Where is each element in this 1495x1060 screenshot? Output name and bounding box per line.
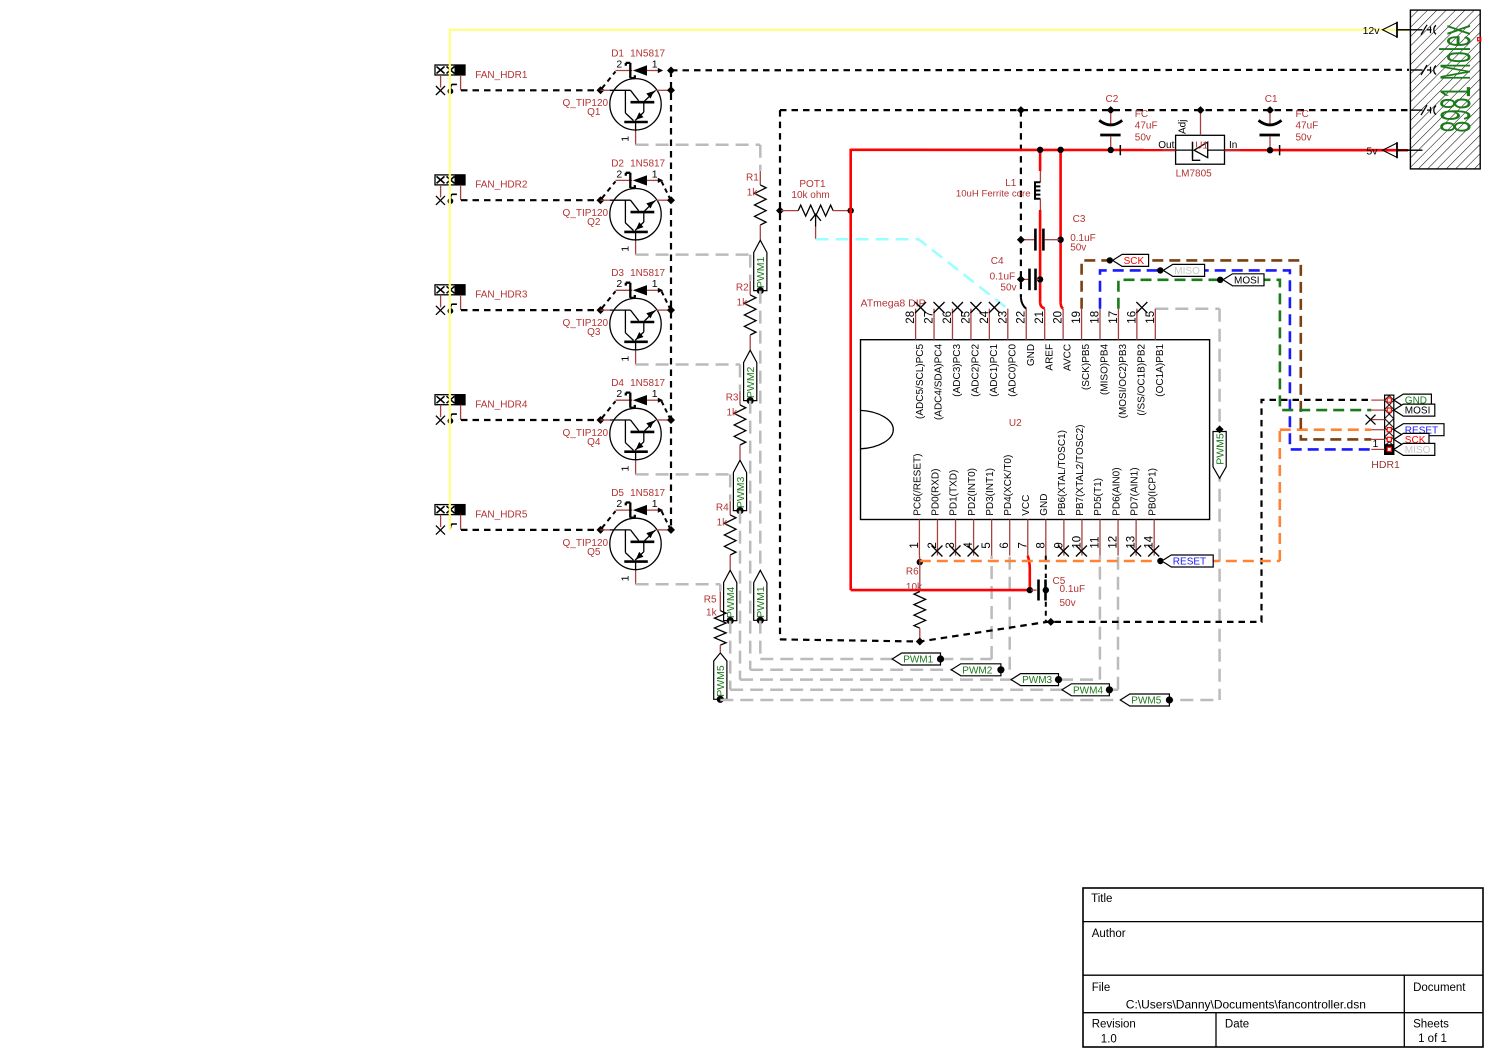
diode D1 1N5817	[616, 63, 664, 78]
svg-text:(OC1A)PB1: (OC1A)PB1	[1155, 343, 1166, 396]
pin number 4	[963, 542, 975, 549]
svg-text:50v: 50v	[1296, 132, 1312, 143]
pin name (ADC5/SCL)PC5	[915, 343, 926, 418]
svg-text:C:\Users\Danny\Documents\fanco: C:\Users\Danny\Documents\fancontroller.d…	[1126, 997, 1366, 1011]
wire diagonal to diode D2 anode	[602, 181, 616, 198]
label C1	[1265, 94, 1278, 105]
pin 5 of U2 (stub)	[991, 520, 993, 556]
svg-text:R5: R5	[704, 595, 717, 606]
wire fan3 to transistor (dashed)	[461, 309, 598, 311]
pin HDR1 row 4 pad	[1387, 428, 1391, 432]
wire diode D5 to bus (dashed diagonal)	[662, 511, 671, 528]
pin HDR1 row 5 stub	[1371, 438, 1384, 440]
svg-text:LM7805: LM7805	[1176, 168, 1213, 179]
node junction GND/C2	[1107, 106, 1115, 114]
node junction VCC/C5	[1027, 587, 1033, 593]
svg-text:2: 2	[616, 168, 622, 180]
svg-text:PB0(ICP1): PB0(ICP1)	[1147, 468, 1158, 516]
svg-text:Title: Title	[1091, 893, 1112, 905]
svg-text:1k: 1k	[747, 188, 759, 199]
diode D4 1N5817	[616, 393, 664, 408]
net tag PWM4 (bottom)	[1062, 684, 1113, 697]
svg-text:(SCK)PB5: (SCK)PB5	[1081, 343, 1092, 390]
net tag MISO at HDR1	[1394, 443, 1435, 456]
node junction C3/GND	[1017, 236, 1025, 244]
label LM7805	[1176, 168, 1213, 179]
node junction C2/5v rail	[1108, 147, 1114, 153]
pin name (SCK)PB5	[1081, 343, 1092, 390]
pin name AVCC	[1063, 344, 1074, 371]
connector FAN_HDR4 body	[435, 395, 465, 405]
svg-text:47uF: 47uF	[1296, 121, 1319, 132]
pin number 5	[981, 542, 993, 548]
svg-text:U2: U2	[1009, 418, 1022, 429]
svg-text:In: In	[1229, 140, 1237, 151]
pin number 10	[1071, 536, 1083, 549]
svg-text:R6: R6	[906, 566, 919, 577]
svg-text:2: 2	[616, 278, 622, 290]
pin number 19	[1071, 311, 1083, 324]
svg-text:1: 1	[619, 246, 631, 252]
node junction POT1 left	[776, 207, 784, 215]
wire fan2 to transistor (dashed)	[461, 199, 598, 201]
pin HDR1 row 5 pad	[1387, 437, 1391, 441]
hook pin symbol FAN_HDR3	[448, 304, 457, 314]
pin 7 of U2 (stub)	[1027, 520, 1029, 556]
node junction POT1 right / VCC rail	[848, 207, 854, 213]
svg-text:Document: Document	[1413, 982, 1466, 994]
svg-text:PWM1: PWM1	[755, 256, 767, 288]
pin label 1 of Q3	[619, 356, 631, 362]
svg-text:8: 8	[1035, 542, 1047, 548]
net tag PWM5 (right side)	[1213, 425, 1226, 478]
no-connect X pin 9	[1058, 546, 1069, 557]
svg-text:1k: 1k	[726, 408, 738, 419]
svg-text:Q1: Q1	[587, 107, 601, 118]
pin Molex 12v	[1410, 25, 1436, 35]
pin FAN_HDR4 right stub	[460, 405, 462, 420]
label FAN_HDR4	[475, 400, 528, 411]
node junction C1/5v rail	[1267, 147, 1273, 153]
label Q_TIP120 Q3	[563, 318, 609, 338]
label Date	[1225, 1018, 1249, 1030]
svg-text:PWM1: PWM1	[755, 586, 767, 618]
pin number 2	[927, 542, 939, 548]
pin FAN_HDR5 left stub	[440, 515, 442, 528]
svg-text:(ADC3)PC3: (ADC3)PC3	[952, 343, 963, 396]
pin number 11	[1090, 537, 1102, 549]
no-connect X pin 28	[915, 302, 926, 313]
wire PWM3 vertical gray	[739, 511, 742, 680]
svg-text:1N5817: 1N5817	[630, 378, 665, 389]
wire Q5 emitter to R5 (gray)	[636, 584, 721, 591]
pin 28 of U2 (stub)	[915, 309, 917, 340]
pin 11 of U2 (stub)	[1099, 520, 1101, 556]
label 10k ohm	[791, 190, 829, 201]
svg-text:10k ohm: 10k ohm	[791, 190, 829, 201]
svg-text:1: 1	[652, 498, 658, 510]
node junction C5/pin8 GND	[1043, 587, 1049, 593]
svg-text:1: 1	[652, 278, 658, 290]
pin 19 of U2 (stub)	[1081, 309, 1083, 340]
capacitor C2 47uF polarized	[1099, 113, 1122, 155]
label 47uF of C1	[1296, 121, 1319, 132]
pin label 1 of D5	[652, 498, 658, 510]
svg-text:PWM2: PWM2	[962, 665, 992, 676]
label 50v of C4	[1000, 282, 1016, 293]
label Q_TIP120 Q1	[563, 98, 609, 118]
wire PWM3 bottom bus (gray)	[740, 556, 1100, 680]
pin name PB6(XTAL/TOSC1)	[1057, 430, 1068, 516]
node junction diode D1 to 12v-return bus	[667, 67, 675, 75]
pin label 1 of D1	[652, 58, 658, 70]
pin HDR1 row 6 pad	[1387, 447, 1391, 451]
pin name (MOSI/OC2)PB3	[1118, 343, 1129, 418]
capacitor C5 0.1uF	[1031, 580, 1046, 601]
wire SCK brown	[1082, 260, 1372, 439]
label 50v of C5	[1060, 598, 1076, 609]
resistor R4 1k	[724, 501, 736, 569]
pin label 1 of Q4	[619, 466, 631, 472]
label C2	[1106, 94, 1119, 105]
node junction (671,90.3)	[667, 86, 675, 94]
svg-text:17: 17	[1108, 311, 1120, 324]
svg-text:GND: GND	[1039, 494, 1050, 516]
marker red square	[1478, 38, 1481, 41]
power arrow 12v	[1383, 22, 1411, 38]
potentiometer POT1 10k	[781, 205, 850, 239]
svg-text:(/SS/OC1B)PB2: (/SS/OC1B)PB2	[1136, 343, 1147, 415]
wire GND branch to ATmega pin 22	[1021, 110, 1026, 309]
no-connect X on FAN_HDR1 pin	[436, 86, 445, 95]
wire VCC vertical x=850.7	[849, 149, 852, 590]
svg-text:50v: 50v	[1070, 243, 1086, 254]
svg-text:Q3: Q3	[587, 327, 601, 338]
label R6	[906, 566, 919, 577]
node junction (671,420)	[667, 416, 675, 424]
capacitor C3 0.1uF	[1022, 229, 1060, 251]
pin FAN_HDR1 left stub	[440, 75, 442, 88]
pin name AREF	[1044, 344, 1055, 371]
svg-text:Q_TIP120: Q_TIP120	[563, 98, 609, 109]
svg-text:AVCC: AVCC	[1063, 344, 1074, 371]
no-connect X pin 13	[1130, 546, 1141, 557]
label 10k of R6	[906, 582, 923, 593]
connector HDR1 body	[1385, 395, 1394, 454]
svg-text:R4: R4	[716, 502, 729, 513]
wire GND bottom bus	[780, 400, 1371, 642]
label FAN_HDR3	[475, 290, 528, 301]
pin 21 of U2 (stub)	[1044, 309, 1046, 340]
wire RESET orange	[920, 430, 1372, 561]
svg-text:PWM5: PWM5	[1131, 696, 1161, 707]
node junction C3/AVCC	[1057, 237, 1063, 243]
pin label 2 of D2	[616, 168, 622, 180]
svg-text:1: 1	[619, 136, 631, 142]
no-connect X pin 26	[952, 302, 963, 313]
label Revision	[1092, 1019, 1136, 1031]
svg-text:PD7(AIN1): PD7(AIN1)	[1129, 467, 1140, 515]
svg-text:PD4(XCK/T0): PD4(XCK/T0)	[1003, 455, 1014, 516]
label Title	[1091, 893, 1112, 905]
svg-text:1: 1	[1373, 438, 1379, 450]
svg-text:PD5(T1): PD5(T1)	[1093, 478, 1104, 516]
pin Molex GND A	[1410, 65, 1436, 75]
label 1k of R5	[706, 608, 718, 619]
node junction (600,310.1)	[597, 306, 605, 314]
wire PWM5 from pin15 (gray)	[1155, 309, 1219, 700]
wire VCC rise to ATmega pin 7	[1028, 556, 1030, 591]
node junction 5v/L1	[1037, 147, 1043, 153]
pin label 1 of Q1	[619, 136, 631, 142]
svg-text:12v: 12v	[1363, 25, 1381, 37]
label 50v of C3	[1070, 243, 1086, 254]
svg-text:PD1(TXD): PD1(TXD)	[949, 470, 960, 516]
svg-text:PWM3: PWM3	[735, 476, 747, 508]
pin number 20	[1053, 311, 1065, 324]
svg-text:C1: C1	[1265, 94, 1278, 105]
capacitor C4 0.1uF	[1022, 269, 1039, 291]
net tag GND at HDR1	[1394, 394, 1432, 407]
label D5 1N5817	[611, 488, 665, 499]
label Document	[1413, 982, 1466, 994]
svg-text:Q_TIP120: Q_TIP120	[563, 318, 609, 329]
pin 15 of U2 (stub)	[1154, 309, 1156, 340]
label Out	[1158, 140, 1174, 151]
pin 24 of U2 (stub)	[988, 309, 990, 340]
wire Q4 emitter to R4 (gray)	[636, 474, 731, 500]
no-connect X pin 10	[1076, 546, 1087, 557]
svg-text:PWM3: PWM3	[1022, 675, 1052, 686]
node junction RESET/R6/pin1	[917, 559, 923, 565]
svg-text:1: 1	[619, 575, 631, 581]
pin 26 of U2 (stub)	[951, 309, 953, 340]
pin U1 Adj to GND	[1200, 114, 1202, 136]
pin HDR1 row 2 stub	[1371, 409, 1384, 411]
svg-text:PWM2: PWM2	[745, 366, 757, 398]
pin 12 of U2 (stub)	[1117, 520, 1119, 556]
svg-text:AREF: AREF	[1044, 344, 1055, 371]
node junction MOSI tag	[1217, 277, 1223, 283]
hook pin symbol FAN_HDR4	[448, 414, 457, 424]
net tag PWM2 (bottom)	[951, 664, 1004, 677]
svg-text:50v: 50v	[1000, 282, 1016, 293]
connector FAN_HDR2 body	[435, 175, 465, 185]
svg-text:L1: L1	[1005, 178, 1017, 189]
label File	[1092, 982, 1111, 994]
label FC of C2	[1135, 109, 1148, 120]
svg-text:(ADC1)PC1: (ADC1)PC1	[989, 343, 1000, 396]
label R4	[716, 502, 729, 513]
resistor R1 1k	[755, 171, 767, 239]
label Sheets	[1413, 1018, 1449, 1030]
pin name PB0(ICP1)	[1147, 468, 1158, 516]
svg-text:(MISO)PB4: (MISO)PB4	[1100, 343, 1111, 395]
no-connect X pin 2	[931, 546, 942, 557]
svg-text:Sheets: Sheets	[1413, 1018, 1449, 1030]
svg-text:Date: Date	[1225, 1018, 1249, 1030]
svg-text:1.0: 1.0	[1101, 1034, 1117, 1046]
wire POT1 wiper to pin 23 (cyan)	[816, 239, 1008, 309]
label HDR1	[1371, 459, 1400, 471]
title block	[1083, 888, 1483, 1047]
svg-text:1k: 1k	[717, 518, 729, 529]
label FC of C1	[1296, 109, 1309, 120]
connector J1 8981 Molex body	[1410, 10, 1480, 169]
label R5	[704, 595, 717, 606]
pin number 18	[1090, 311, 1102, 324]
svg-text:FAN_HDR3: FAN_HDR3	[475, 290, 528, 301]
hook pin symbol FAN_HDR1	[448, 84, 457, 94]
wire diagonal to diode D1 anode	[602, 72, 616, 89]
pin FAN_HDR2 right stub	[460, 185, 462, 200]
svg-text:1N5817: 1N5817	[630, 48, 665, 59]
wire GND bus horizontal y=110	[780, 109, 1409, 111]
svg-text:Out: Out	[1158, 140, 1174, 151]
pin label 2 of D3	[616, 278, 622, 290]
label 0.1uF of C5	[1060, 584, 1086, 595]
pin name PD2(INT0)	[967, 468, 978, 516]
node junction L1/C4	[1037, 276, 1043, 282]
node junction (600,420)	[597, 416, 605, 424]
pin 13 of U2 (stub)	[1135, 520, 1137, 556]
net tag SCK at HDR1	[1394, 433, 1429, 446]
label Q_TIP120 Q2	[563, 208, 609, 228]
no-connect X pin 14	[1148, 546, 1159, 557]
svg-text:Revision: Revision	[1092, 1019, 1136, 1031]
pin label 2 of D1	[616, 58, 622, 70]
label D4 1N5817	[611, 378, 665, 389]
pin number 17	[1108, 311, 1120, 324]
pin HDR1 row 1 stub	[1371, 399, 1384, 401]
no-connect X pin 16	[1136, 302, 1147, 313]
svg-text:PWM5: PWM5	[715, 665, 727, 697]
svg-text:Author: Author	[1092, 928, 1126, 940]
svg-text:RESET: RESET	[1173, 557, 1206, 568]
svg-text:PWM4: PWM4	[1073, 685, 1103, 696]
pin name PD7(AIN1)	[1129, 467, 1140, 515]
svg-text:8981 Molex: 8981 Molex	[1432, 25, 1480, 133]
pin FAN_HDR2 left stub	[440, 185, 442, 198]
diode D5 1N5817	[616, 503, 664, 518]
pin FAN_HDR1 right stub	[460, 75, 462, 90]
svg-text:MOSI: MOSI	[1234, 275, 1260, 286]
pin label 1 of D4	[652, 388, 658, 400]
transistor Q5 TIP120	[601, 518, 672, 584]
svg-text:FAN_HDR4: FAN_HDR4	[475, 400, 528, 411]
svg-text:1: 1	[652, 58, 658, 70]
wire 5v to L1	[1039, 150, 1042, 171]
net tag PWM3 below R3	[733, 460, 746, 514]
node junction GND/LM7805 Adj	[1197, 106, 1205, 114]
svg-text:C3: C3	[1073, 214, 1086, 225]
pin number 8	[1035, 542, 1047, 548]
svg-text:Q_TIP120: Q_TIP120	[563, 208, 609, 219]
wire 5v to C3/AVCC x=1060.6	[1061, 150, 1064, 309]
pin number 15	[1145, 311, 1157, 324]
svg-text:7: 7	[1017, 542, 1029, 548]
label D3 1N5817	[611, 268, 665, 279]
node junction (671,529.9)	[667, 526, 675, 534]
transistor Q4 TIP120	[601, 408, 672, 474]
svg-text:PD3(INT1): PD3(INT1)	[985, 468, 996, 516]
label Q_TIP120 Q5	[563, 538, 609, 558]
node junction MISO tag	[1157, 267, 1163, 273]
wire vertical return bus x=671	[670, 71, 672, 530]
svg-text:12: 12	[1108, 536, 1120, 549]
wire diagonal to diode D5 anode	[602, 511, 616, 528]
svg-text:50v: 50v	[1060, 598, 1076, 609]
svg-text:Q_TIP120: Q_TIP120	[563, 428, 609, 439]
net tag PWM5 (bottom)	[1120, 694, 1173, 707]
no-connect X on FAN_HDR5 pin	[436, 526, 445, 535]
svg-text:R3: R3	[726, 392, 739, 403]
svg-text:23: 23	[997, 311, 1009, 324]
wire diode D4 to bus (dashed diagonal)	[662, 401, 671, 418]
pin name PD5(T1)	[1093, 478, 1104, 516]
pin number 24	[979, 310, 991, 323]
label C3	[1073, 214, 1086, 225]
pin name (ADC4/SDA)PC4	[934, 343, 945, 420]
label U1	[1195, 141, 1208, 152]
pin name PD0(RXD)	[931, 469, 942, 516]
svg-text:1N5817: 1N5817	[630, 488, 665, 499]
wire PWM1 bottom bus (gray)	[760, 556, 991, 659]
pin number 27	[924, 311, 936, 324]
svg-text:File: File	[1092, 982, 1111, 994]
pin HDR1 row 6 stub	[1371, 448, 1384, 450]
pin label 1 of D2	[652, 168, 658, 180]
transistor Q3 TIP120	[601, 298, 672, 364]
net tag PWM3 (bottom)	[1011, 674, 1062, 687]
pin 16 of U2 (stub)	[1136, 309, 1138, 340]
pin 25 of U2 (stub)	[970, 309, 972, 340]
svg-text:(ADC0)PC0: (ADC0)PC0	[1007, 343, 1018, 396]
pin 22 of U2 (stub)	[1025, 309, 1027, 340]
svg-text:19: 19	[1071, 311, 1083, 324]
label R3	[726, 392, 739, 403]
node junction (600,529.9)	[597, 526, 605, 534]
no-connect X pin 24	[989, 302, 1000, 313]
pin label 1 of Q5	[619, 575, 631, 581]
connector FAN_HDR3 body	[435, 285, 465, 295]
svg-text:15: 15	[1145, 311, 1157, 324]
inductor L1 10uH	[1035, 171, 1040, 210]
svg-text:1k: 1k	[706, 608, 718, 619]
label Adj	[1177, 120, 1188, 134]
svg-text:(ADC4/SDA)PC4: (ADC4/SDA)PC4	[934, 343, 945, 420]
pin 1 of U2 (stub)	[918, 520, 920, 556]
svg-text:10k: 10k	[906, 582, 923, 593]
wire fan5 to transistor (dashed)	[461, 529, 598, 531]
svg-text:5: 5	[981, 542, 993, 548]
svg-text:50v: 50v	[1135, 132, 1151, 143]
node junction R6/GND bus	[916, 638, 924, 646]
pin number 25	[960, 311, 972, 324]
svg-text:11: 11	[1090, 537, 1102, 549]
wire 5v rail horizontal	[851, 149, 1408, 152]
svg-text:Q_TIP120: Q_TIP120	[563, 538, 609, 549]
wire MISO blue	[1100, 270, 1371, 449]
label 50v of C1	[1296, 132, 1312, 143]
label 50v of C2	[1135, 132, 1151, 143]
regulator U1 LM7805	[1176, 135, 1225, 164]
pin 20 of U2 (stub)	[1062, 309, 1064, 340]
node junction GND/ATmega branch	[1017, 106, 1025, 114]
pin number 3	[945, 542, 957, 548]
svg-text:GND: GND	[1026, 344, 1037, 366]
svg-text:1: 1	[909, 542, 921, 548]
